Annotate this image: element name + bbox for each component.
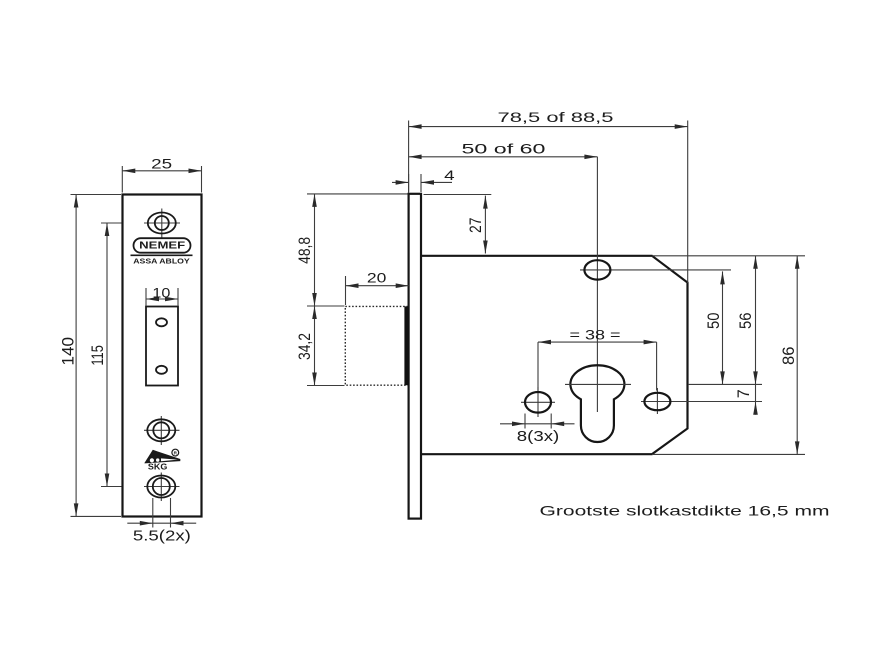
dimension 10 (strike box width) xyxy=(146,286,178,306)
svg-text:78,5 of 88,5: 78,5 of 88,5 xyxy=(498,109,614,125)
svg-text:48,8: 48,8 xyxy=(296,237,314,264)
dimension 78,5 of 88,5 (case depth) xyxy=(409,109,688,283)
NEMEF logo xyxy=(134,238,191,253)
right small hole xyxy=(641,388,762,414)
dimension 86 xyxy=(779,256,800,455)
svg-text:25: 25 xyxy=(151,156,172,171)
ASSA ABLOY text xyxy=(133,259,190,266)
svg-text:SKG: SKG xyxy=(148,462,168,471)
case top edge extension xyxy=(652,255,805,257)
lock case outline xyxy=(421,256,688,454)
svg-text:56: 56 xyxy=(736,312,755,329)
svg-text:NEMEF: NEMEF xyxy=(139,241,185,252)
left small hole xyxy=(521,387,555,417)
note: Grootste slotkastdikte 16,5 mm xyxy=(540,503,830,519)
bottom screw hole xyxy=(144,473,180,502)
latch bolt (dashed) xyxy=(345,306,408,385)
svg-text:20: 20 xyxy=(367,270,387,285)
dimension 4 (faceplate thickness) xyxy=(392,168,455,192)
dimension 140 (faceplate height) xyxy=(58,195,121,517)
svg-text:5.5(2x): 5.5(2x) xyxy=(133,527,191,544)
case bottom edge extension xyxy=(652,453,805,455)
svg-text:34,2: 34,2 xyxy=(296,333,314,360)
svg-text:50 of 60: 50 of 60 xyxy=(462,140,546,156)
dimension 48,8 xyxy=(296,194,408,306)
NEMEF underline xyxy=(131,254,193,256)
dimension 34,2 xyxy=(296,306,345,386)
svg-text:86: 86 xyxy=(779,346,798,365)
svg-text:4: 4 xyxy=(444,168,455,183)
dimension 27 xyxy=(424,195,492,254)
svg-text:8(3x): 8(3x) xyxy=(517,428,560,445)
dimension 8(3x) xyxy=(500,414,575,446)
dimension 5.5(2x) (screw hole diameter) xyxy=(127,498,196,544)
svg-text:27: 27 xyxy=(467,218,485,234)
strike box hole upper xyxy=(156,318,167,326)
strike box xyxy=(146,307,178,386)
svg-text:10: 10 xyxy=(152,286,170,301)
strike box hole lower xyxy=(156,366,167,374)
svg-text:ASSA ABLOY: ASSA ABLOY xyxy=(133,259,190,266)
dimension 25 (faceplate width) xyxy=(122,156,201,192)
dimension 56 xyxy=(736,256,758,385)
top case hole xyxy=(580,260,731,279)
svg-text:7: 7 xyxy=(734,389,753,398)
faceplate front view xyxy=(123,195,202,517)
dimension =38= xyxy=(538,326,657,390)
euro cylinder profile xyxy=(565,365,631,442)
cylinder centre extension xyxy=(688,383,762,385)
faceplate side view (right) xyxy=(409,194,421,519)
dimension 7 xyxy=(734,384,758,414)
svg-text:Grootste slotkastdikte 16,5 mm: Grootste slotkastdikte 16,5 mm xyxy=(540,503,830,519)
svg-text:= 38 =: = 38 = xyxy=(570,326,621,342)
dimension 115 (hole spacing) xyxy=(88,223,122,487)
dimension 20 (bolt length) xyxy=(346,270,409,305)
dimension 50 of 60 (backset) xyxy=(409,140,598,412)
top screw hole xyxy=(144,209,180,238)
SKG logo xyxy=(145,449,181,471)
third screw hole xyxy=(144,416,180,445)
svg-text:50: 50 xyxy=(704,312,723,329)
dimension 50 (right) xyxy=(704,271,725,384)
svg-text:115: 115 xyxy=(88,345,107,366)
svg-text:140: 140 xyxy=(58,337,77,366)
